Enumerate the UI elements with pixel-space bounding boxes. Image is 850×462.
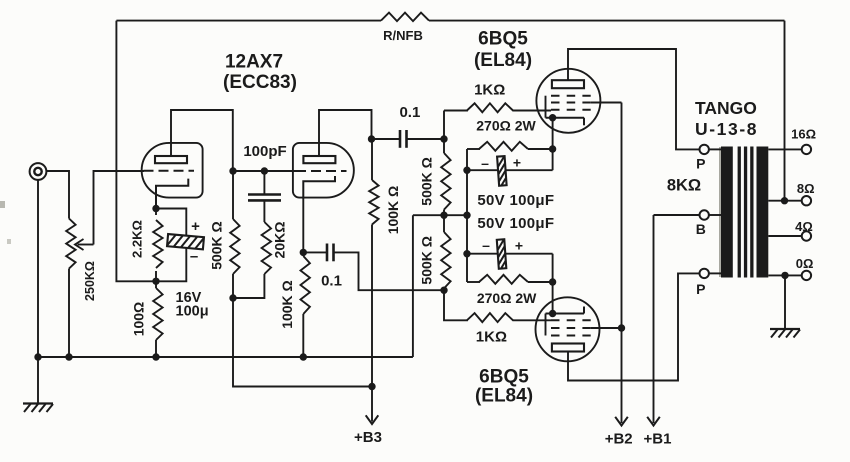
node +B2 bus / V3 screen (618, 324, 625, 331)
wire V2 plate to transformer P top (568, 49, 700, 149)
svg-text:270Ω 2W: 270Ω 2W (477, 290, 537, 306)
svg-text:16Ω: 16Ω (791, 127, 816, 142)
node bottom cathode / 270 ohm (549, 278, 556, 285)
wire V3 screen to +B2 bus (591, 327, 622, 329)
svg-text:0.1: 0.1 (399, 104, 420, 121)
svg-text:+B3: +B3 (354, 429, 382, 446)
svg-text:–: – (482, 237, 490, 253)
triode V1a plate (155, 156, 187, 163)
node B: 100pF branch (261, 167, 268, 174)
input jack J1 (30, 163, 47, 180)
svg-text:(ECC83): (ECC83) (223, 72, 297, 93)
arrow +B2 (615, 414, 628, 426)
svg-text:1KΩ: 1KΩ (474, 82, 505, 99)
wire junction to ground return (413, 214, 467, 216)
cathode bus left (466, 149, 468, 282)
node bus / bottom cap wire (463, 250, 470, 257)
terminal 16 ohm (802, 145, 811, 154)
node V1b plate / 100K / 0.1 (368, 135, 375, 142)
pentode V2 6BQ5 top envelope (536, 69, 600, 133)
capacitor 0.1 lower coupling (303, 244, 444, 291)
svg-text:+B1: +B1 (644, 431, 672, 448)
potentiometer wiper arrow (75, 239, 94, 250)
resistor 500K ohm bottom grid leak (441, 215, 450, 290)
terminal P bottom (700, 269, 722, 278)
resistor 20K ohm (233, 222, 271, 298)
node 0 ohm / ground (781, 272, 788, 279)
wire V3 plate to transformer P bottom (568, 273, 700, 380)
pentode V3 g2 (dashed) (551, 327, 591, 329)
pentode V3 g3-cathode tie (545, 314, 547, 336)
pentode V2 g3 (dashed) (551, 95, 591, 97)
svg-text:100K Ω: 100K Ω (279, 280, 295, 329)
capacitor 100pF (248, 171, 281, 222)
ground symbol left (23, 357, 53, 412)
svg-text:P: P (696, 281, 705, 297)
svg-text:100Ω: 100Ω (131, 302, 147, 337)
pentode V2 g1 (dashed) (551, 109, 591, 111)
svg-text:–: – (481, 155, 489, 171)
svg-text:12AX7: 12AX7 (225, 52, 283, 73)
wire +B2 bus (621, 103, 623, 415)
scan speck 1 (0, 201, 5, 208)
pentode V3 6BQ5 bottom envelope (536, 297, 600, 361)
node V3 cathode tie (549, 310, 556, 317)
pentode V2 plate (552, 80, 584, 88)
wire 8 ohm tap (768, 200, 802, 202)
svg-text:8Ω: 8Ω (797, 181, 815, 196)
wire top feedback rail left segment (116, 20, 381, 22)
resistor 100K ohm V1b plate load (369, 139, 378, 387)
pentode V3 g3 (dashed) (551, 335, 591, 337)
wire 4 ohm tap (768, 235, 802, 237)
node bus / junction wire (463, 212, 470, 219)
svg-text:270Ω 2W: 270Ω 2W (476, 118, 536, 134)
svg-text:4Ω: 4Ω (795, 219, 813, 234)
svg-text:500K Ω: 500K Ω (419, 236, 435, 285)
capacitor 16V 100u bypass (156, 209, 220, 282)
potentiometer VR1 250K ohm body (66, 219, 75, 269)
triode V1a grid (dashed) (144, 170, 195, 172)
transformer T1 primary winding bar (721, 147, 733, 278)
node 100 ohm / rail (152, 353, 159, 360)
svg-text:+: + (513, 155, 521, 171)
wire 16 ohm tap (768, 148, 802, 150)
terminal 4 ohm (802, 231, 811, 240)
svg-text:0Ω: 0Ω (796, 256, 814, 271)
wire V1 plate up and over to node A (171, 110, 233, 171)
pentode V3 g1 (dashed) (551, 319, 591, 321)
transformer T1 secondary winding bar (757, 147, 769, 278)
resistor 1K ohm bottom grid stopper (444, 290, 551, 322)
resistor 1K ohm top grid stopper (444, 103, 551, 112)
node V1b cathode (300, 249, 307, 256)
svg-text:0.1: 0.1 (321, 273, 342, 290)
terminal B (654, 210, 722, 219)
terminal P top (700, 145, 722, 154)
capacitor 50V 100uF top (467, 153, 553, 207)
wire top tube cathode column (552, 118, 554, 171)
svg-text:P: P (696, 156, 705, 172)
node pot bottom / rail (65, 353, 72, 360)
node V1 cathode bottom / NFB (152, 278, 159, 285)
node V2 cathode tie (549, 114, 556, 121)
node cathode 100K / rail (300, 353, 307, 360)
svg-text:(EL84): (EL84) (475, 386, 533, 407)
svg-text:(EL84): (EL84) (474, 50, 532, 71)
node A: V1 plate / 500K / coupling (229, 167, 236, 174)
arrow +B1 (647, 414, 660, 426)
transformer T1 core lamination 3 (750, 147, 753, 278)
capacitor 50V 100uF bottom (467, 236, 553, 289)
arrow +B3 (366, 387, 379, 425)
node +B3 (368, 383, 375, 390)
svg-text:6BQ5: 6BQ5 (479, 367, 529, 388)
terminal 8 ohm (802, 196, 811, 205)
svg-text:8KΩ: 8KΩ (667, 177, 701, 195)
svg-text:2.2KΩ: 2.2KΩ (130, 220, 145, 258)
wire node A to V2 grid (233, 170, 296, 172)
wire top feedback rail right segment (429, 20, 785, 22)
svg-text:50V 100μF: 50V 100μF (477, 192, 554, 209)
svg-text:100K Ω: 100K Ω (385, 186, 401, 235)
resistor 500K ohm top grid leak (441, 139, 450, 215)
node bus / top cap wire (463, 167, 470, 174)
wire bottom tube cathode column (552, 254, 554, 314)
wire jack to volume pot top (47, 171, 69, 219)
node C: bottom of V1 load network (229, 294, 236, 301)
svg-text:20KΩ: 20KΩ (272, 222, 288, 259)
pentode V3 plate (552, 344, 584, 352)
scan crease artifact (719, 147, 721, 277)
wire wiper to V1 grid (94, 171, 145, 245)
node bottom 500K / 0.1 / 1K (440, 287, 447, 294)
node top 500K / 0.1 / 1K (440, 135, 447, 142)
node 500K junction (440, 212, 447, 219)
node top cathode / 270 ohm (549, 145, 556, 152)
triode V1b cathode (303, 176, 335, 199)
wire V2 screen to +B2 bus (591, 102, 622, 104)
resistor R/NFB (381, 13, 429, 22)
svg-text:+B2: +B2 (605, 431, 633, 448)
svg-text:50V 100μF: 50V 100μF (477, 215, 554, 232)
ground rail (38, 356, 413, 358)
svg-text:100pF: 100pF (243, 143, 286, 160)
wire feedback left drop to V1 cathode (116, 21, 156, 282)
svg-text:100μ: 100μ (176, 304, 209, 320)
triode V1b grid (dashed) (296, 170, 347, 172)
resistor 500K ohm plate load V1 (230, 171, 239, 298)
pentode V2 g3-cathode tie (545, 96, 547, 118)
terminal 0 ohm (802, 271, 811, 280)
svg-text:TANGO: TANGO (695, 98, 757, 118)
wire jack sleeve to ground rail (37, 180, 39, 357)
wire feedback right drop to 8 ohm tap (784, 21, 786, 201)
wire node up to 1K grid stopper (443, 111, 445, 140)
pentode V3 cathode (546, 307, 585, 314)
wire pot bottom to ground rail (68, 269, 70, 357)
triode V1b plate (303, 156, 335, 163)
node jack ground / rail (34, 353, 41, 360)
transformer T1 core lamination 1 (738, 147, 741, 278)
wire ground return drop (412, 215, 414, 357)
wire 0 ohm tap (768, 274, 802, 276)
svg-text:500K Ω: 500K Ω (209, 221, 225, 270)
resistor 100 ohm (153, 281, 162, 357)
pentode V2 cathode (546, 118, 585, 126)
svg-text:500K Ω: 500K Ω (419, 157, 435, 206)
pentode V2 g2 (dashed) (551, 102, 591, 104)
resistor 2.2K ohm (153, 209, 162, 282)
svg-text:–: – (190, 248, 198, 265)
svg-text:1KΩ: 1KΩ (476, 329, 507, 346)
triode V1a 12AX7 envelope (142, 143, 203, 198)
wire V1b cathode lead (302, 199, 304, 252)
svg-text:B: B (696, 221, 706, 237)
svg-text:R/NFB: R/NFB (383, 28, 423, 43)
transformer T1 core lamination 2 (744, 147, 747, 278)
node V1 cathode (152, 205, 159, 212)
resistor 270 ohm 2W bottom (467, 275, 553, 284)
svg-text:+: + (515, 238, 523, 254)
svg-text:250KΩ: 250KΩ (83, 261, 97, 301)
capacitor 0.1 upper coupling (372, 130, 445, 148)
svg-text:U-13-8: U-13-8 (695, 119, 758, 139)
ground symbol right (770, 275, 800, 337)
triode V1b 12AX7 envelope (293, 143, 354, 198)
triode V1a cathode (156, 179, 188, 209)
svg-text:6BQ5: 6BQ5 (478, 29, 528, 50)
wire V1b plate up to plate node (319, 110, 372, 156)
wire node C down to +B3 line (233, 298, 372, 387)
resistor 100K ohm cathode load (301, 252, 310, 357)
resistor 270 ohm 2W top (467, 142, 553, 151)
wire B to +B1 (653, 215, 655, 414)
node 8 ohm / feedback (781, 197, 788, 204)
scan speck 2 (7, 239, 11, 244)
svg-text:+: + (191, 218, 200, 235)
